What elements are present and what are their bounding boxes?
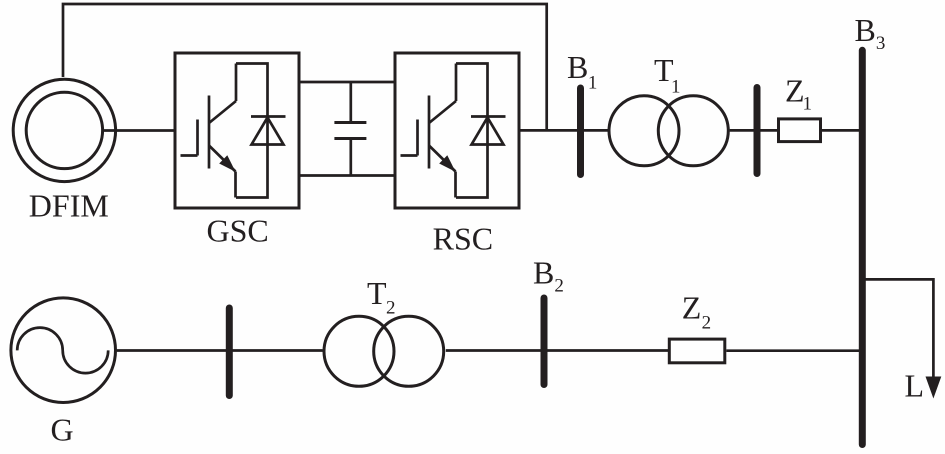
svg-text:RSC: RSC [433, 221, 493, 257]
svg-text:1: 1 [803, 94, 813, 115]
svg-text:L: L [905, 368, 925, 404]
svg-text:GSC: GSC [207, 213, 269, 249]
svg-text:DFIM: DFIM [29, 187, 109, 223]
svg-text:2: 2 [702, 313, 712, 334]
svg-text:B: B [533, 255, 554, 291]
svg-text:G: G [51, 412, 74, 448]
svg-text:Z: Z [682, 290, 702, 326]
svg-text:1: 1 [588, 73, 598, 94]
svg-text:T: T [367, 275, 387, 311]
svg-text:3: 3 [876, 33, 886, 54]
svg-text:B: B [855, 12, 876, 48]
svg-text:1: 1 [671, 77, 681, 98]
svg-text:B: B [567, 49, 588, 85]
svg-text:2: 2 [386, 298, 396, 319]
svg-text:2: 2 [554, 276, 564, 297]
